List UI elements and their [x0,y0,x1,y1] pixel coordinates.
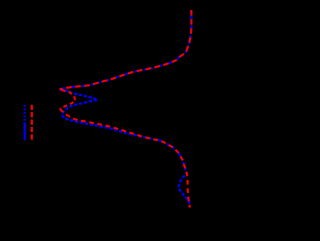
legend: red dashed sample [31,105,33,140]
blue curve: upper section (top vertical, shoulder, slope to vertex A) [60,11,192,90]
legend: blue dotted sample [24,105,26,121]
legend: blue solid sample [24,122,26,140]
red curve: lower section (runs just above blue, then tail) [60,109,190,208]
red curve: middle narrow zigzag (A to B_red to C_red) [60,90,76,109]
red curve: upper section (drawn over blue) [60,10,192,90]
blue curve: middle zigzag (A to wide bulge B to lower turn) [60,90,98,116]
blue curve: lower section (descending slope, bend, notch, tail end) [62,115,191,204]
